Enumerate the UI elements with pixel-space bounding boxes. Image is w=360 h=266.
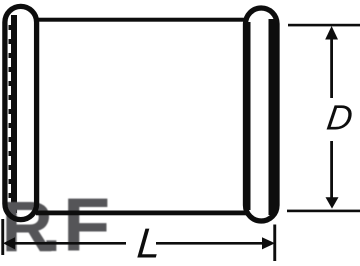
left bead (5, 6, 37, 219)
L right tick (273, 225, 276, 262)
bottom extension line (287, 210, 360, 213)
body top line (36, 18, 248, 22)
L dimension line right segment (156, 242, 264, 245)
svg-text:L: L (135, 220, 162, 266)
watermark R.F (2, 184, 111, 266)
top extension line (288, 24, 360, 27)
D arrowhead down (326, 197, 339, 208)
right bead face line (269, 19, 276, 215)
L arrowhead left (3, 237, 15, 249)
right bead inner thickening (248, 22, 251, 210)
svg-text:.: . (42, 188, 62, 266)
right bead (246, 8, 278, 221)
left bead inner edge line (11, 15, 17, 213)
hidden dashed line (7, 25, 11, 211)
L dimension line left segment (12, 242, 126, 245)
svg-text:F: F (63, 184, 110, 266)
L left tick (1, 219, 4, 255)
D arrowhead up (325, 26, 338, 40)
body bottom line (36, 211, 248, 216)
D dimension line lower segment (330, 141, 333, 198)
D dimension line upper segment (330, 37, 333, 98)
L arrowhead right (262, 237, 275, 249)
